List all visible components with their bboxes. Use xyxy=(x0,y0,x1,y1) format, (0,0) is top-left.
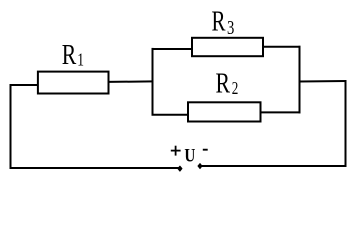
svg-text:R: R xyxy=(212,7,226,38)
svg-text:R: R xyxy=(216,67,231,100)
svg-text:3: 3 xyxy=(227,17,234,38)
svg-text:R: R xyxy=(62,38,77,71)
svg-text:2: 2 xyxy=(232,79,239,98)
svg-text:U: U xyxy=(184,145,195,166)
svg-text:1: 1 xyxy=(77,51,84,70)
